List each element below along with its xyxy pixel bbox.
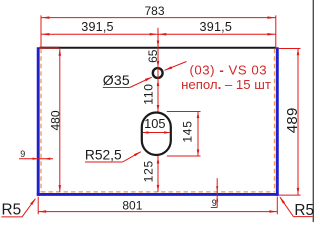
svg-text:145: 145 — [180, 120, 194, 142]
svg-text:9: 9 — [20, 149, 25, 159]
svg-text:9: 9 — [212, 198, 217, 208]
svg-text:105: 105 — [144, 116, 165, 131]
svg-text:(03) - VS 03: (03) - VS 03 — [189, 62, 267, 77]
svg-text:480: 480 — [48, 110, 62, 130]
svg-text:489: 489 — [284, 107, 301, 133]
svg-text:65: 65 — [146, 49, 160, 63]
svg-text:R5: R5 — [2, 201, 22, 218]
svg-text:783: 783 — [144, 4, 164, 18]
svg-text:125: 125 — [142, 160, 156, 182]
svg-text:110: 110 — [142, 83, 156, 104]
svg-text:391,5: 391,5 — [81, 20, 114, 34]
svg-text:391,5: 391,5 — [200, 20, 233, 34]
svg-text:801: 801 — [122, 199, 142, 213]
svg-text:Ø35: Ø35 — [103, 72, 130, 88]
svg-text:R52,5: R52,5 — [85, 148, 122, 163]
svg-text:непол. – 15 шт: непол. – 15 шт — [181, 77, 271, 92]
